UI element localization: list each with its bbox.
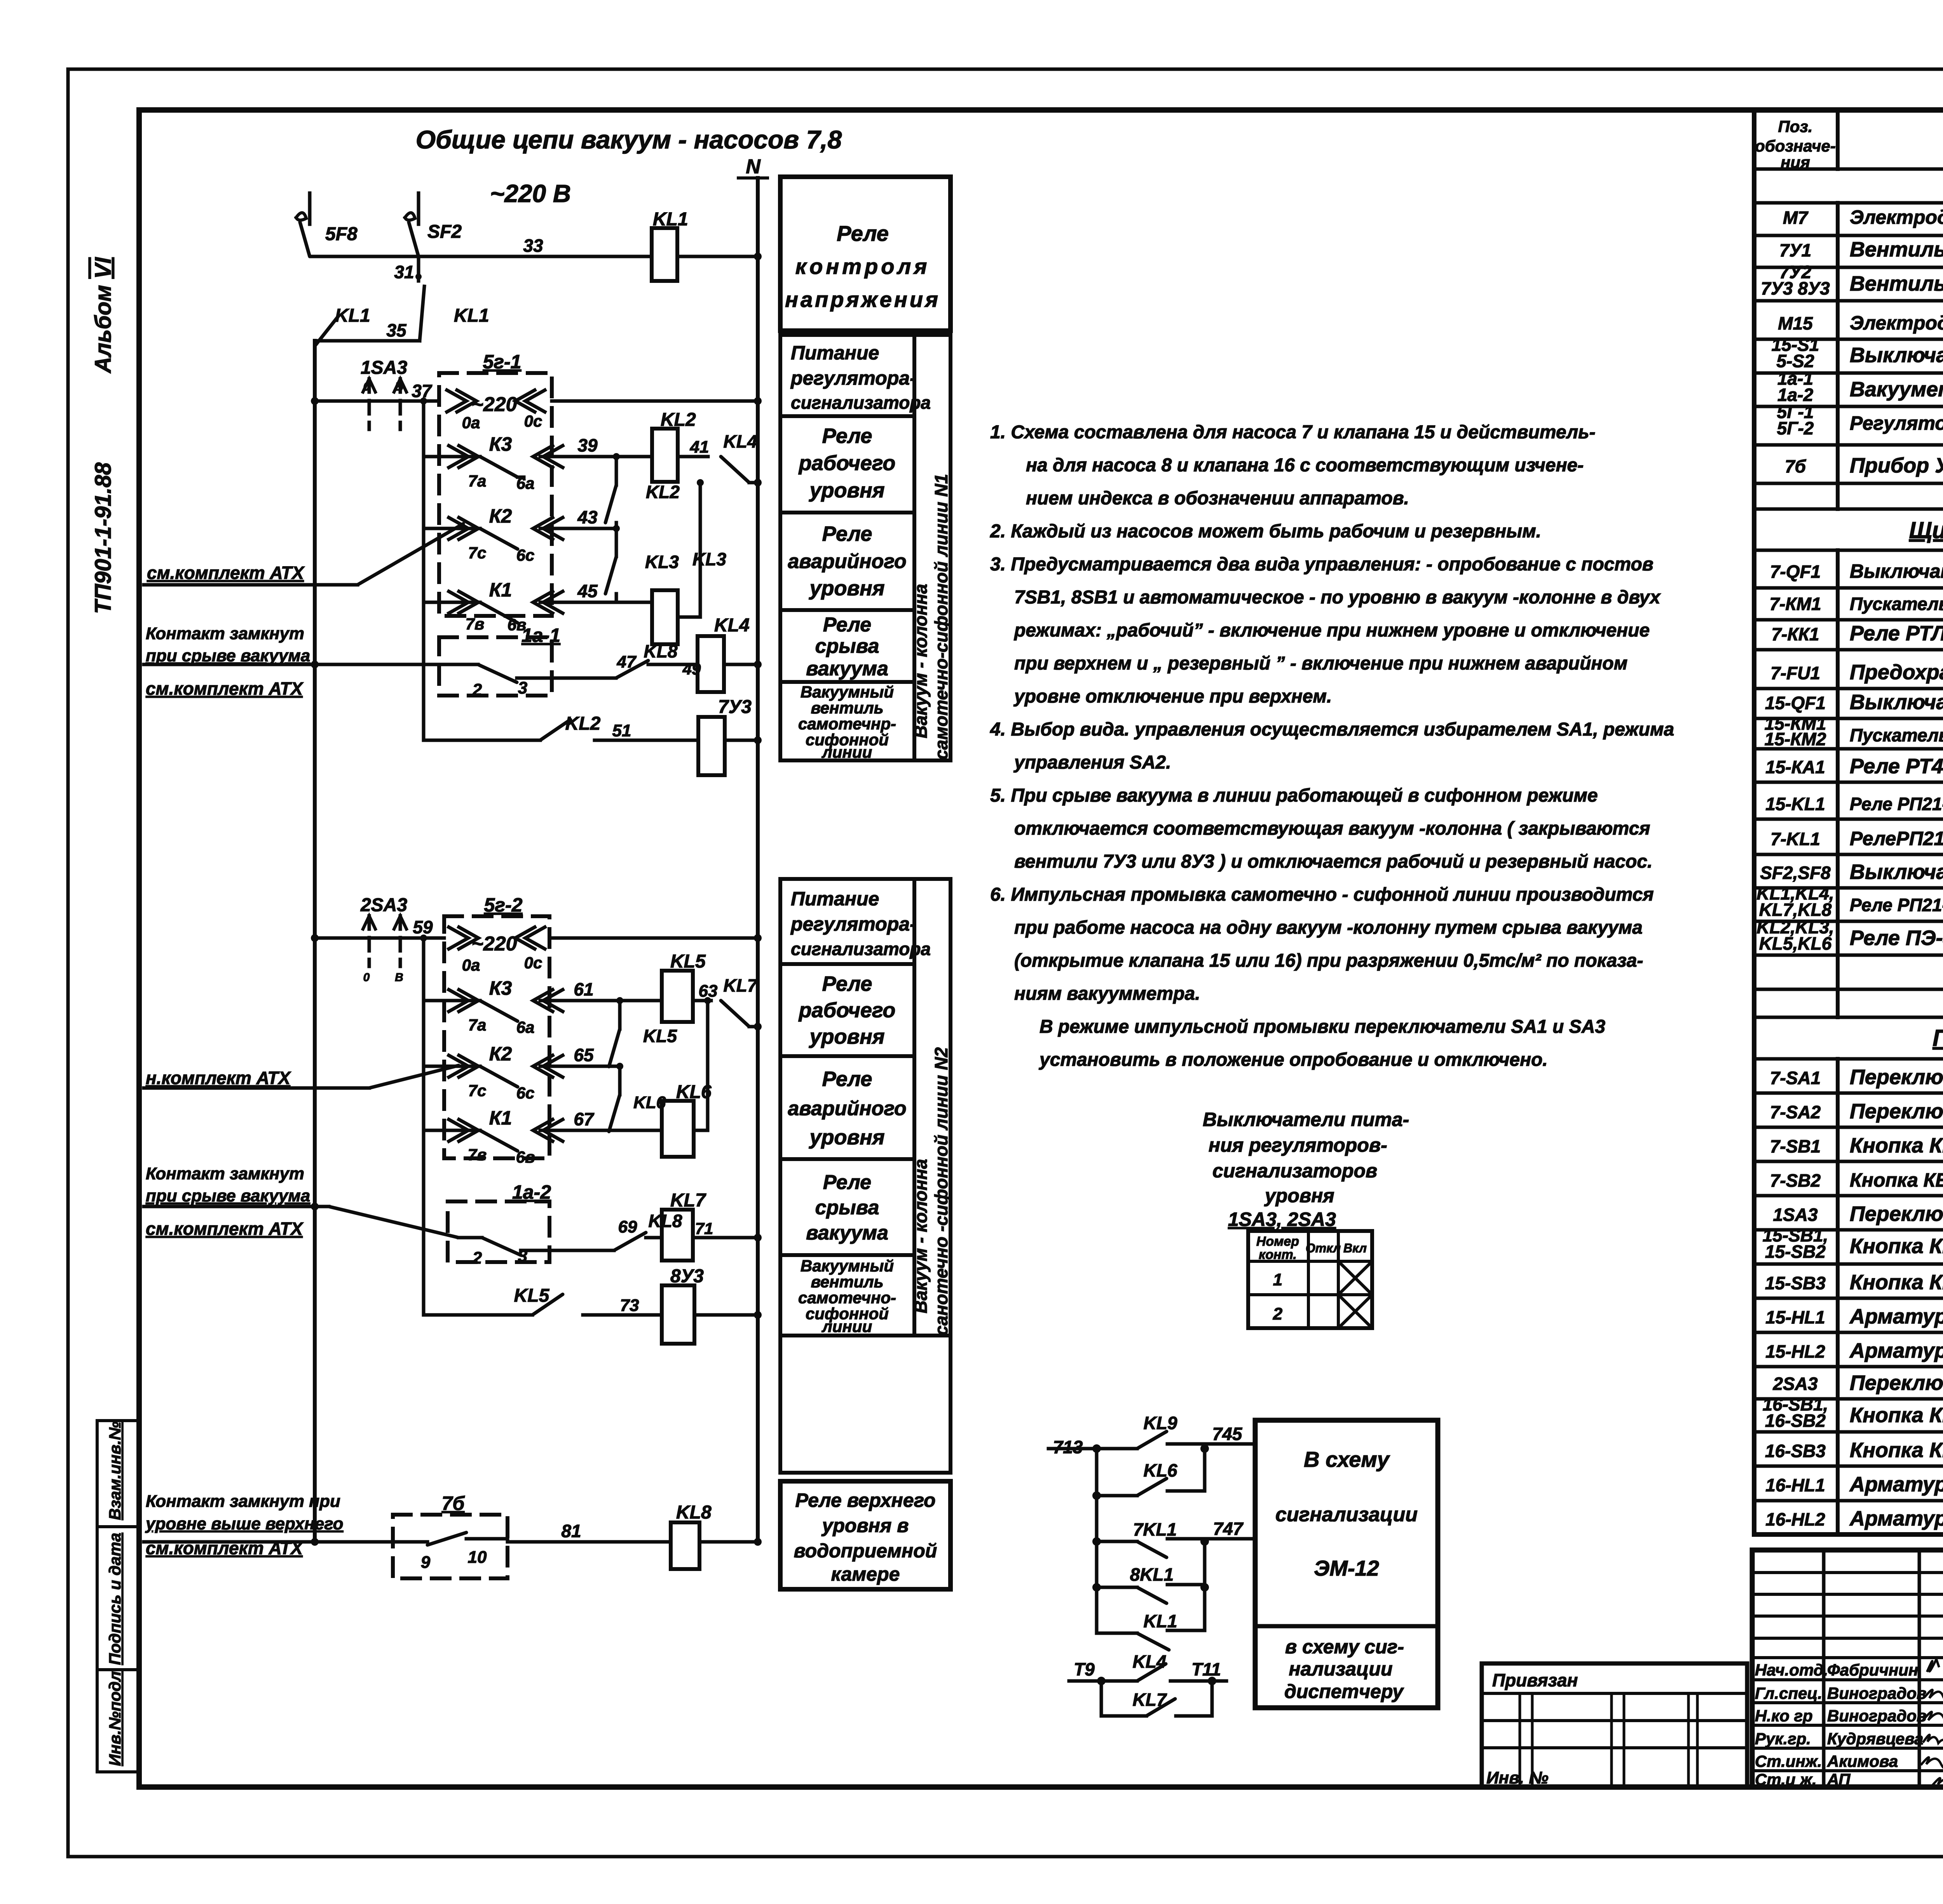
svg-text:6с: 6с xyxy=(516,546,535,564)
svg-text:7-QF1: 7-QF1 xyxy=(1770,561,1821,582)
component table left edge xyxy=(1752,110,1756,1534)
K3 row wire b xyxy=(540,455,652,459)
svg-text:Реле РП21-002УХЛ4 с розеткой т: Реле РП21-002УХЛ4 с розеткой типа 3 U~22… xyxy=(1850,895,1943,915)
svg-text:Контакт замкнут при: Контакт замкнут при xyxy=(146,1492,340,1511)
svg-text:Реле: Реле xyxy=(822,1067,872,1091)
svg-text:3: 3 xyxy=(518,678,527,697)
relay box: Реле рабочего уровня (1) xyxy=(780,416,914,513)
dashed box 7б xyxy=(393,1515,508,1578)
svg-text:сигнализатора: сигнализатора xyxy=(791,392,931,413)
svg-text:Регулятор-сигнализатор уровня: Регулятор-сигнализатор уровня ЭРСУ-3 xyxy=(1850,412,1943,434)
ladder row3 wire xyxy=(1097,1540,1137,1543)
svg-text:51: 51 xyxy=(612,721,631,740)
svg-text:Прибор УСП-1М: Прибор УСП-1М xyxy=(1850,454,1943,477)
mini contact table xyxy=(1248,1231,1372,1328)
KL6 drop a xyxy=(618,1066,622,1095)
svg-text:71: 71 xyxy=(695,1219,713,1238)
svg-text:KL8: KL8 xyxy=(676,1502,712,1523)
svg-text:самотечно-: самотечно- xyxy=(798,1289,896,1307)
svg-text:15-SB3: 15-SB3 xyxy=(1765,1273,1826,1293)
svg-text:Вакуумный: Вакуумный xyxy=(801,683,894,701)
svg-text:М7: М7 xyxy=(1783,207,1809,228)
svg-text:7SB1, 8SB1 и автоматическое: 7SB1, 8SB1 и автоматическое - по уровню … xyxy=(1014,587,1661,608)
ladder loop2 vertical xyxy=(1203,1541,1207,1585)
svg-text:KL2: KL2 xyxy=(646,482,680,502)
svg-text:KL8: KL8 xyxy=(649,1211,682,1231)
svg-text:Реле верхнего: Реле верхнего xyxy=(795,1489,935,1511)
svg-text:камере: камере xyxy=(831,1563,900,1585)
group1 feed to N bus xyxy=(552,399,758,403)
svg-text:Откл: Откл xyxy=(1306,1241,1341,1255)
svg-text:Кнопка КЕ011 исп. 4: Кнопка КЕ011 исп. 4 черный xyxy=(1850,1234,1943,1258)
svg-text:уровня: уровня xyxy=(808,1025,884,1048)
svg-text:1а-1: 1а-1 xyxy=(522,624,560,646)
svg-text:KL1: KL1 xyxy=(454,305,489,326)
svg-text:ТП901-1-91.88: ТП901-1-91.88 xyxy=(91,462,116,614)
ladder row3 wire b xyxy=(1167,1537,1255,1541)
ladder row1 wire b xyxy=(1167,1442,1255,1446)
svg-text:2: 2 xyxy=(472,1248,482,1268)
contact KL7 stroke xyxy=(721,1001,749,1027)
svg-text:на для насоса 8 и клапана: на для насоса 8 и клапана 16 с соответст… xyxy=(1026,455,1584,476)
svg-text:ЭМ-12: ЭМ-12 xyxy=(1314,1556,1379,1580)
svg-text:К1: К1 xyxy=(489,579,512,601)
ladder rail xyxy=(1095,1449,1099,1633)
svg-text:1SА3, 2SА3: 1SА3, 2SА3 xyxy=(1228,1208,1336,1230)
contact KL2 NC stroke xyxy=(605,485,616,523)
svg-text:15-КМ2: 15-КМ2 xyxy=(1765,729,1826,749)
svg-text:самотечнр-: самотечнр- xyxy=(798,715,896,733)
svg-text:Нач.отд.: Нач.отд. xyxy=(1755,1661,1828,1679)
svg-text:Кнопка КЕ011 исп. 4: Кнопка КЕ011 исп. 4 черный xyxy=(1850,1134,1943,1157)
svg-text:KL1: KL1 xyxy=(335,305,370,326)
T9 wire a xyxy=(1069,1679,1137,1683)
KL5 drop a xyxy=(618,1001,622,1029)
wire 31 jog xyxy=(420,286,424,341)
ATX diagonal 2b xyxy=(329,1207,459,1238)
svg-text:7-КМ1: 7-КМ1 xyxy=(1769,594,1821,614)
KL3 drop b xyxy=(615,594,618,602)
8У3 coil to bus xyxy=(694,1313,758,1317)
svg-text:Н.ко гр: Н.ко гр xyxy=(1755,1707,1813,1725)
svg-text:15-SB2: 15-SB2 xyxy=(1765,1241,1826,1262)
svg-text:KL4: KL4 xyxy=(1133,1651,1167,1672)
svg-text:Арматура АСТ3 U~220В: Арматура АСТ3 U~220В xyxy=(1849,1339,1943,1362)
svg-text:7с: 7с xyxy=(468,544,487,562)
revision table (Привязан) xyxy=(1482,1663,1747,1787)
relay coil KL4 xyxy=(698,636,724,692)
group1 feed wire xyxy=(315,399,439,403)
svg-text:см.комплект АТХ: см.комплект АТХ xyxy=(147,563,305,583)
contact KL8 stroke xyxy=(616,661,648,678)
svg-text:Реле: Реле xyxy=(823,1171,871,1194)
svg-text:К2: К2 xyxy=(489,505,512,527)
svg-text:73: 73 xyxy=(620,1296,639,1315)
ladder row2 wire xyxy=(1097,1494,1137,1498)
svg-text:при срыве вакуума: при срыве вакуума xyxy=(146,646,310,665)
svg-text:уровня: уровня xyxy=(808,1126,884,1149)
svg-text:Т9: Т9 xyxy=(1074,1659,1095,1679)
ATX wire 1 xyxy=(144,583,358,587)
dashed box 1а-2 xyxy=(448,1201,549,1262)
left margin stamp strip xyxy=(97,1421,139,1772)
svg-text:15-KL1: 15-KL1 xyxy=(1765,794,1825,814)
ATX wire 2 xyxy=(144,1086,369,1090)
svg-text:1SA3: 1SA3 xyxy=(361,357,407,378)
svg-text:аварийного: аварийного xyxy=(788,1097,906,1120)
svg-text:Выключатель конечный: Выключатель конечный xyxy=(1850,343,1943,367)
svg-text:см.комплект АТХ: см.комплект АТХ xyxy=(146,1219,303,1239)
svg-text:4. Выбор вида. управления ос: 4. Выбор вида. управления осуществляется… xyxy=(990,719,1674,740)
svg-text:отключается соответствующая: отключается соответствующая вакуум -коло… xyxy=(1014,818,1650,839)
relay coil 7У3 xyxy=(698,717,725,775)
strip divider 1 xyxy=(97,1525,139,1528)
svg-text:Арматура АСТК . U~220В: Арматура АСТК . U~220В xyxy=(1849,1473,1943,1496)
svg-text:РелеРП21-010УХЛ4 с розеткой ти: РелеРП21-010УХЛ4 с розеткой типа 3 U~220… xyxy=(1850,828,1943,849)
svg-text:7а: 7а xyxy=(468,472,487,490)
wire from ATX contact 2 xyxy=(144,1205,329,1208)
contact 7б out xyxy=(466,1537,508,1541)
svg-text:6а: 6а xyxy=(516,1018,535,1036)
K1 row wire b xyxy=(540,601,652,604)
svg-text:10: 10 xyxy=(468,1548,487,1567)
svg-text:747: 747 xyxy=(1213,1519,1244,1539)
contact 7б stroke xyxy=(427,1533,466,1545)
svg-text:7-SA2: 7-SA2 xyxy=(1770,1102,1821,1122)
svg-text:Кнопка КЕ011 исп. 4: Кнопка КЕ011 исп. 4 черный xyxy=(1850,1404,1943,1427)
relay coil 8У3 xyxy=(662,1285,694,1344)
svg-text:см.комплект АТХ: см.комплект АТХ xyxy=(146,678,303,699)
svg-text:В: В xyxy=(395,971,403,984)
svg-text:при срыве вакуума: при срыве вакуума xyxy=(146,1186,310,1205)
svg-text:вентиль: вентиль xyxy=(811,699,883,717)
breaker SF2 stub xyxy=(417,193,420,224)
svg-text:линии: линии xyxy=(822,743,872,761)
svg-text:6с: 6с xyxy=(516,1084,535,1102)
svg-text:Переключатель ПЕ031 исп. 1: Переключатель ПЕ031 исп. 1 xyxy=(1850,1065,1943,1089)
svg-text:санотечно -сифонной линии N2: санотечно -сифонной линии N2 xyxy=(931,1047,951,1336)
svg-text:7-SB2: 7-SB2 xyxy=(1770,1170,1821,1191)
svg-text:1: 1 xyxy=(1273,1270,1282,1289)
dashed box 1а-1 xyxy=(439,637,552,696)
svg-text:KL5: KL5 xyxy=(643,1026,677,1046)
svg-text:Реле РТЛ-10160*4С Iнэ =11.5: Реле РТЛ-10160*4С Iнэ =11.5А xyxy=(1850,622,1943,645)
relay box: Реле верхнего уровня xyxy=(780,1481,951,1589)
svg-text:вакуума: вакуума xyxy=(806,657,888,680)
svg-text:Номер: Номер xyxy=(1256,1234,1299,1249)
svg-text:7в: 7в xyxy=(468,1146,487,1164)
svg-text:нализации: нализации xyxy=(1289,1658,1393,1680)
svg-text:N: N xyxy=(746,155,761,178)
KL7 to bus xyxy=(749,1025,758,1029)
contact KL8 g2 stroke xyxy=(614,1233,646,1250)
svg-text:Вакууметр ЭКВ-1У: Вакууметр ЭКВ-1У xyxy=(1850,378,1943,401)
svg-text:уровня: уровня xyxy=(808,577,884,600)
contact KL3 NC stroke xyxy=(605,556,616,594)
svg-text:М15: М15 xyxy=(1778,313,1813,333)
svg-text:Реле: Реле xyxy=(822,972,872,996)
title block vertical: name col xyxy=(1918,1550,1921,1787)
KL7 loop vert a xyxy=(1100,1681,1103,1716)
svg-text:сигнализаторов: сигнализаторов xyxy=(1212,1160,1377,1182)
svg-text:Гл.спец.: Гл.спец. xyxy=(1755,1684,1822,1702)
wire 49 xyxy=(648,663,698,666)
svg-text:16-HL1: 16-HL1 xyxy=(1765,1475,1825,1495)
svg-text:KL7: KL7 xyxy=(724,975,758,996)
K3g2 row wire b xyxy=(540,999,662,1003)
svg-text:Фабричнин: Фабричнин xyxy=(1827,1661,1918,1679)
K2 row wire b xyxy=(540,527,616,530)
7У3 coil to bus xyxy=(725,739,758,742)
svg-text:Виноградов: Виноградов xyxy=(1827,1707,1926,1725)
relay box: Реле срыва вакуума (2) xyxy=(780,1159,914,1255)
relay box: Реле рабочего уровня (2) xyxy=(780,964,914,1056)
relay coil KL3 xyxy=(652,590,678,644)
svg-text:Арматура АСТК U~220В: Арматура АСТК U~220В xyxy=(1849,1305,1943,1328)
KL7 loop wire xyxy=(1101,1714,1146,1718)
X mark row1 xyxy=(1340,1263,1371,1293)
svg-text:рабочего: рабочего xyxy=(798,452,896,475)
svg-text:н.комплект АТХ: н.комплект АТХ xyxy=(146,1068,291,1088)
svg-text:Предохранитель ППТ10У3 Iплвс: Предохранитель ППТ10У3 Iплвст =6А xyxy=(1850,661,1943,684)
K3g2 row wire a xyxy=(424,999,480,1003)
empty relay box xyxy=(780,1336,951,1473)
svg-text:7а: 7а xyxy=(468,1016,487,1034)
svg-text:745: 745 xyxy=(1212,1424,1243,1444)
svg-text:KL1: KL1 xyxy=(653,209,688,230)
svg-text:Реле: Реле xyxy=(822,522,872,546)
svg-text:7У1: 7У1 xyxy=(1779,240,1811,260)
svg-text:31: 31 xyxy=(394,262,414,282)
svg-text:срыва: срыва xyxy=(815,635,879,657)
node N tick xyxy=(738,176,767,180)
svg-text:Арматура АСТ3 U~220В: Арматура АСТ3 U~220В xyxy=(1849,1507,1943,1530)
group2 junction vertical xyxy=(422,938,426,1315)
svg-text:Подпись и дата: Подпись и дата xyxy=(106,1533,124,1665)
contact KL7 bottom stroke xyxy=(1146,1699,1175,1716)
svg-text:0с: 0с xyxy=(524,412,542,430)
svg-text:регулятора-: регулятора- xyxy=(790,913,916,935)
KL3 link vertical xyxy=(699,483,702,617)
selector switch stubs 2SA3 xyxy=(368,916,371,966)
svg-text:К3: К3 xyxy=(489,433,512,455)
row 73 wire b xyxy=(583,1313,662,1317)
svg-text:при верхнем и „ резервный ”: при верхнем и „ резервный ” - включение … xyxy=(1014,653,1627,674)
group2 feed wire xyxy=(315,936,444,940)
svg-text:Вакуум - колонна: Вакуум - колонна xyxy=(910,584,931,738)
svg-text:59: 59 xyxy=(413,917,433,937)
svg-text:управления SA2.: управления SA2. xyxy=(1013,752,1171,773)
svg-text:Реле ПЭ-37-42У3: Реле ПЭ-37-42У3 U~220В xyxy=(1850,926,1943,950)
svg-text:обозначе-: обозначе- xyxy=(1755,137,1836,155)
svg-text:KL5: KL5 xyxy=(670,951,706,972)
svg-text:7-KL1: 7-KL1 xyxy=(1770,829,1820,849)
component table bottom xyxy=(1754,1532,1943,1537)
KL6 coil out xyxy=(694,1129,708,1132)
svg-text:0а: 0а xyxy=(462,956,480,974)
group2 feed to N bus xyxy=(549,936,758,940)
svg-text:Ст.инж.: Ст.инж. xyxy=(1755,1752,1822,1770)
svg-text:KL4: KL4 xyxy=(724,431,757,452)
contact KL5 stroke row73 xyxy=(532,1294,563,1315)
KL2 drop a xyxy=(615,457,618,485)
svg-text:KL9: KL9 xyxy=(1144,1413,1177,1433)
svg-text:Вентиль 15кч883р, 0.04кВт , ~2: Вентиль 15кч883р, 0.04кВт , ~220В xyxy=(1850,272,1943,295)
svg-text:напряжения: напряжения xyxy=(785,287,940,312)
relay coil KL8 xyxy=(671,1522,699,1569)
svg-text:Инв.№подл: Инв.№подл xyxy=(106,1671,124,1766)
svg-text:KL1: KL1 xyxy=(1144,1611,1177,1631)
contact KL9 stroke xyxy=(1137,1431,1167,1449)
svg-text:7-КК1: 7-КК1 xyxy=(1771,624,1819,644)
svg-text:16-SB2: 16-SB2 xyxy=(1765,1411,1826,1431)
relay coil KL6 xyxy=(662,1101,694,1157)
K1 row wire a xyxy=(424,601,480,604)
contact KL5 NC stroke xyxy=(609,1029,620,1067)
svg-text:сигнализатора: сигнализатора xyxy=(791,939,931,959)
svg-text:KL8: KL8 xyxy=(644,641,678,661)
svg-text:Кнопка КЕ011 исп. 5 к: Кнопка КЕ011 исп. 5 красный xyxy=(1850,1438,1943,1462)
svg-text:7KL1: 7KL1 xyxy=(1133,1519,1177,1540)
N bus vertical xyxy=(756,178,760,1542)
svg-text:Кудрявцева: Кудрявцева xyxy=(1827,1730,1923,1748)
KL2 drop b xyxy=(615,523,618,528)
svg-text:Вакуумный: Вакуумный xyxy=(801,1257,894,1275)
svg-text:7-SB1: 7-SB1 xyxy=(1770,1136,1821,1156)
wire 35 row xyxy=(315,339,420,343)
svg-text:Реле: Реле xyxy=(823,614,871,636)
relay coil KL7 xyxy=(662,1210,693,1261)
svg-text:39: 39 xyxy=(577,435,598,455)
svg-text:ния регуляторов-: ния регуляторов- xyxy=(1209,1134,1387,1156)
contact KL4 bottom stroke xyxy=(1137,1664,1166,1681)
svg-text:уровня в: уровня в xyxy=(821,1515,909,1536)
svg-text:Альбом VI: Альбом VI xyxy=(91,257,116,374)
box В схему сигнализации ЭМ-12 xyxy=(1255,1420,1438,1708)
svg-text:нием индекса в обозначении: нием индекса в обозначении аппаратов. xyxy=(1026,488,1409,509)
svg-text:0: 0 xyxy=(363,971,370,984)
svg-text:5г-2: 5г-2 xyxy=(484,894,523,916)
relay box: Реле контроля напряжения xyxy=(780,177,951,331)
svg-text:7-SA1: 7-SA1 xyxy=(1770,1068,1821,1088)
svg-text:~220: ~220 xyxy=(471,933,517,955)
svg-text:Переключатель ПЕ021 исп. 1: Переключатель ПЕ021 исп. 1 xyxy=(1850,1202,1943,1226)
ladder loop3 vertical xyxy=(1203,1587,1207,1630)
svg-text:К1: К1 xyxy=(489,1107,512,1129)
side strip column 1 xyxy=(914,335,951,760)
svg-text:0с: 0с xyxy=(524,954,542,972)
svg-text:KL5,KL6: KL5,KL6 xyxy=(1759,933,1832,954)
svg-text:К3: К3 xyxy=(489,977,512,999)
svg-text:1а-2: 1а-2 xyxy=(512,1181,551,1203)
svg-text:Кнопка КЕ011 исп. 5 к: Кнопка КЕ011 исп. 5 красный xyxy=(1850,1271,1943,1294)
contact KL4 stroke xyxy=(721,457,749,483)
svg-text:Т11: Т11 xyxy=(1191,1659,1221,1679)
svg-text:KL7: KL7 xyxy=(670,1190,706,1211)
svg-text:1. Схема составлена для нас: 1. Схема составлена для насоса 7 и клапа… xyxy=(990,422,1596,443)
svg-text:7б: 7б xyxy=(1785,456,1807,476)
contact 1a-1 stroke xyxy=(478,664,517,682)
svg-text:Реле РТ40/0,6УХЛ4 Iср =: Реле РТ40/0,6УХЛ4 Iср = 0,3А xyxy=(1850,755,1943,778)
svg-text:К2: К2 xyxy=(489,1043,512,1065)
contact 1a-2 out xyxy=(521,1249,614,1252)
ladder loop1 vertical xyxy=(1203,1449,1207,1491)
contact K3 g2 stroke xyxy=(480,1001,518,1021)
svg-text:Контакт замкнут: Контакт замкнут xyxy=(146,1164,304,1183)
title block outline xyxy=(1752,1550,1943,1787)
KL3 drop a xyxy=(615,528,618,556)
svg-text:вентиль: вентиль xyxy=(811,1273,883,1291)
svg-text:7У3: 7У3 xyxy=(718,697,752,717)
contact KL1 stroke xyxy=(1137,1633,1169,1650)
contact KL6 stroke xyxy=(1137,1479,1167,1496)
contact K2 stroke xyxy=(480,528,518,549)
svg-text:установить в положение опро: установить в положение опробование и отк… xyxy=(1039,1050,1548,1070)
svg-text:5. При срыве вакуума в лини: 5. При срыве вакуума в линии работающей … xyxy=(990,785,1598,806)
svg-text:0: 0 xyxy=(363,380,370,393)
contact K1 g2 stroke xyxy=(480,1130,518,1151)
breaker SF8 stub xyxy=(308,193,312,224)
wire from ATX contact 1 xyxy=(144,663,478,666)
row 51 wire a xyxy=(424,739,540,742)
K3 stub xyxy=(518,476,524,479)
relay coil KL5 xyxy=(662,971,693,1022)
svg-text:KL3: KL3 xyxy=(645,552,679,572)
T9 wire b xyxy=(1170,1679,1226,1683)
svg-text:рабочего: рабочего xyxy=(798,999,896,1022)
svg-text:7-FU1: 7-FU1 xyxy=(1770,663,1820,683)
svg-text:уровне выше верхнего: уровне выше верхнего xyxy=(145,1514,344,1533)
7б row wire a xyxy=(144,1540,427,1544)
svg-text:диспетчеру: диспетчеру xyxy=(1284,1681,1404,1702)
svg-text:9: 9 xyxy=(421,1553,431,1572)
contact 1a-2 lead xyxy=(459,1236,482,1240)
svg-text:5F8: 5F8 xyxy=(325,224,358,244)
svg-text:3. Предусматривается два вида: 3. Предусматривается два вида управления… xyxy=(990,554,1653,575)
svg-text:Рук.гр.: Рук.гр. xyxy=(1755,1730,1811,1748)
svg-text:Пускатель ПМЛ15010*4В с приста: Пускатель ПМЛ15010*4В с приставкойПКЛ200… xyxy=(1850,725,1943,745)
KL3 coil out xyxy=(678,615,700,619)
K1g2 row wire b xyxy=(540,1129,662,1132)
svg-text:2: 2 xyxy=(472,680,482,699)
svg-text:8KL1: 8KL1 xyxy=(1130,1564,1174,1585)
svg-text:43: 43 xyxy=(577,507,598,527)
svg-text:Переключатель ПЕ021 исп. 1: Переключатель ПЕ021 исп. 1 xyxy=(1850,1371,1943,1395)
svg-text:KL2: KL2 xyxy=(565,713,601,734)
KL8 coil to bus xyxy=(699,1540,758,1544)
svg-text:7с: 7с xyxy=(468,1081,487,1100)
svg-text:Ст.и ж.: Ст.и ж. xyxy=(1755,1770,1817,1789)
contact KL6 NC stroke xyxy=(609,1095,620,1132)
contact KL1 stroke xyxy=(316,316,339,345)
svg-text:KL2: KL2 xyxy=(661,410,696,430)
signature rows xyxy=(1752,1656,1943,1659)
svg-text:SF2: SF2 xyxy=(427,221,462,242)
wire 71 seg xyxy=(646,1236,662,1240)
K1g2 row wire a xyxy=(424,1129,480,1132)
contact 8KL1 stroke xyxy=(1137,1587,1167,1603)
svg-text:Электродвигатель 4А112М4У3 , 5: Электродвигатель 4А112М4У3 , 5.5кВт,380В xyxy=(1850,206,1943,228)
svg-text:0а: 0а xyxy=(462,413,480,432)
svg-text:16-SB3: 16-SB3 xyxy=(1765,1441,1826,1461)
svg-text:(открытие клапана 15 или 1: (открытие клапана 15 или 16) при разряже… xyxy=(1014,950,1643,971)
relay box: Вакуумный вентиль (1) xyxy=(780,682,914,760)
svg-text:SF2,SF8: SF2,SF8 xyxy=(1760,863,1831,883)
KL7 loop wire b xyxy=(1176,1714,1212,1718)
svg-text:сигнализации: сигнализации xyxy=(1275,1503,1418,1526)
contact 7KL1 stroke xyxy=(1137,1541,1167,1557)
svg-text:Выключатели пита-: Выключатели пита- xyxy=(1203,1109,1409,1130)
